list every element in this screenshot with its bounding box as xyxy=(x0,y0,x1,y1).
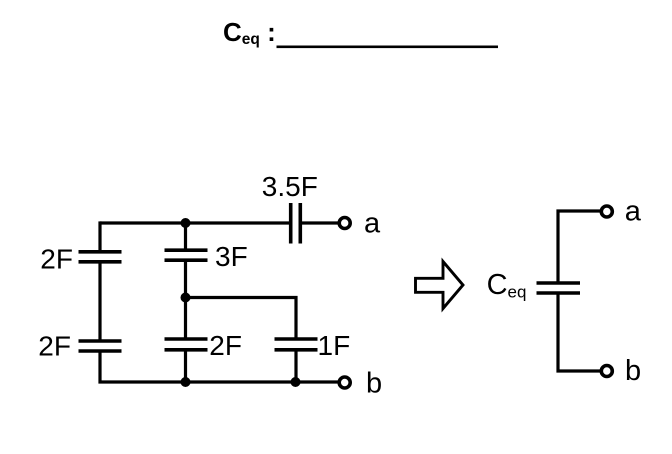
svg-text:Ceq: Ceq xyxy=(487,269,527,302)
junction (bottom right node) xyxy=(291,377,301,387)
svg-text:b: b xyxy=(366,368,382,400)
wire right circuit (a side) xyxy=(558,211,600,283)
wire right branch lower xyxy=(294,350,297,382)
terminal b (right circuit) xyxy=(601,366,612,377)
node b label (right circuit) xyxy=(625,355,641,387)
wire left branch xyxy=(100,221,339,383)
wire inner node horizontal xyxy=(186,298,297,340)
value label 3.5F xyxy=(262,171,318,202)
terminal a (right circuit) xyxy=(601,206,612,217)
wire middle branch xyxy=(184,223,187,382)
blank answer line xyxy=(277,46,499,49)
node a label (left circuit) xyxy=(364,208,381,240)
equivalence arrow xyxy=(416,262,464,309)
svg-text:2F: 2F xyxy=(209,330,242,361)
svg-text:Ceq :: Ceq : xyxy=(223,17,276,48)
node a label (right circuit) xyxy=(625,196,642,228)
value label 1F xyxy=(318,330,351,361)
svg-text:a: a xyxy=(364,208,381,240)
terminal a (left circuit) xyxy=(339,218,350,229)
svg-text:1F: 1F xyxy=(318,330,351,361)
capacitor 2F (lower left) xyxy=(79,341,122,351)
capacitor 3F xyxy=(165,250,208,260)
svg-text:3.5F: 3.5F xyxy=(262,171,318,202)
value label 2F (upper left) xyxy=(40,243,73,274)
node b label (left circuit) xyxy=(366,368,382,400)
junction (bottom middle node) xyxy=(181,377,191,387)
capacitor 2F (upper left) xyxy=(79,252,122,262)
svg-text:3F: 3F xyxy=(215,241,248,272)
label Ceq : (title) xyxy=(223,17,276,48)
wire top rail (node a, left circuit) xyxy=(100,221,339,224)
value label 3F xyxy=(215,241,248,272)
value label Ceq xyxy=(487,269,527,302)
svg-text:b: b xyxy=(625,355,641,387)
value label 2F (lower left) xyxy=(38,330,71,361)
terminal b (left circuit) xyxy=(339,377,350,388)
junction (inner node) xyxy=(181,293,191,303)
capacitor 2F (middle bottom) xyxy=(165,339,208,350)
value label 2F (middle bottom) xyxy=(209,330,242,361)
capacitor 1F xyxy=(275,339,318,350)
capacitor 3.5F xyxy=(291,203,301,244)
svg-text:2F: 2F xyxy=(40,243,73,274)
capacitor Ceq xyxy=(537,283,581,293)
junction (top middle node) xyxy=(181,218,191,228)
svg-text:a: a xyxy=(625,196,642,228)
wire right circuit (b side) xyxy=(558,293,600,371)
svg-text:2F: 2F xyxy=(38,330,71,361)
